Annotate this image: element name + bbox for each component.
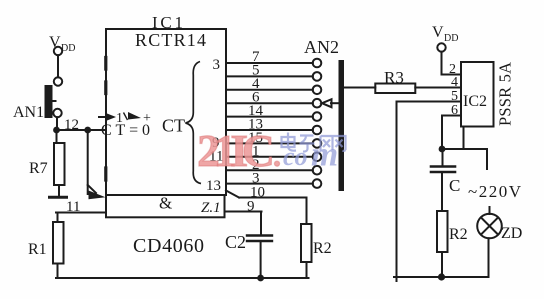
IC1 left edge overdraw marks bbox=[104, 58, 107, 181]
svg-text:21IC: 21IC bbox=[197, 125, 275, 176]
wire node A down to R7 bbox=[56, 130, 58, 143]
oscillator sub-box & bbox=[106, 195, 225, 217]
svg-text:DD: DD bbox=[444, 33, 458, 44]
clock input arrow into sub-box bbox=[88, 185, 96, 193]
svg-text:CD4060: CD4060 bbox=[133, 235, 204, 257]
wire Vdd to button AN1 bbox=[57, 55, 59, 77]
wire button to node 12 bbox=[56, 117, 58, 130]
AN2 contact circle 6 bbox=[313, 126, 322, 135]
wire pin9 horizontal bbox=[225, 211, 262, 213]
wire AC stub lower to lamp bbox=[489, 207, 491, 214]
svg-text:&: & bbox=[159, 194, 172, 213]
Vdd supply terminal left bbox=[54, 47, 62, 55]
output wire Q6 pin4 bbox=[226, 89, 313, 91]
wire Vdd to IC2 pin2 bbox=[442, 52, 462, 75]
AN2 contact circle 9 bbox=[313, 166, 322, 175]
svg-text:4: 4 bbox=[451, 75, 458, 90]
svg-text:11: 11 bbox=[66, 199, 80, 215]
svg-text:CT: CT bbox=[162, 116, 185, 136]
pushbutton AN1 top contact bbox=[54, 77, 62, 85]
output wire Q4 pin7 bbox=[226, 62, 313, 64]
AN2 contact circle 10 bbox=[313, 179, 322, 188]
wire R1 to bottom rail bbox=[57, 264, 59, 279]
wire node B down to clock arrow bbox=[87, 130, 89, 194]
output wire Q7 pin6 bbox=[226, 102, 313, 104]
svg-text:Z.1: Z.1 bbox=[201, 200, 221, 216]
AN2 contact circle 2 bbox=[313, 72, 322, 81]
svg-text:~220V: ~220V bbox=[468, 182, 522, 201]
svg-text:C2: C2 bbox=[225, 232, 246, 252]
wire pin10 horizontal bbox=[239, 197, 307, 199]
AN2 selector bar bbox=[339, 60, 345, 191]
svg-text:R2: R2 bbox=[313, 240, 332, 257]
wire AC stub upper bbox=[486, 149, 488, 169]
AN2 contact circle 5 bbox=[313, 112, 322, 121]
svg-text:CT=0: CT=0 bbox=[101, 122, 150, 139]
watermark dianziwang blue glyphs bbox=[282, 133, 346, 152]
wire pin10 diagonal from box corner bbox=[226, 191, 239, 198]
output wire Q12 pin1 bbox=[226, 156, 313, 158]
resistor R2 right bbox=[437, 211, 448, 252]
dynamic input arrowhead bbox=[107, 114, 116, 121]
resistor R1 bbox=[53, 222, 64, 264]
resistor R3 bbox=[375, 84, 415, 94]
wire right bottom rail bbox=[394, 276, 489, 278]
brace CT outputs bbox=[186, 62, 202, 184]
AN2 contact circle 1 bbox=[313, 59, 322, 68]
wire IC2 bottom pin down bbox=[463, 127, 465, 150]
dynamic input wedge pin stub bbox=[99, 116, 107, 118]
wire R2 to right rail bbox=[441, 252, 443, 277]
svg-text:V: V bbox=[49, 34, 61, 51]
svg-text:.: . bbox=[273, 137, 281, 173]
svg-text:13: 13 bbox=[206, 178, 221, 194]
wire C to R2 bbox=[441, 172, 443, 211]
AN2 contact circle 7 bbox=[313, 139, 322, 148]
wire pin10 down to R2 bbox=[306, 198, 308, 225]
svg-text:5: 5 bbox=[451, 89, 458, 104]
svg-text:AN2: AN2 bbox=[304, 37, 339, 57]
lamp ZD bbox=[477, 214, 502, 239]
wire selector bar to R3 bbox=[344, 87, 375, 89]
svg-text:co: co bbox=[283, 142, 308, 171]
wire IC2 pin6 down bbox=[442, 116, 461, 150]
node B junction dot bbox=[84, 127, 91, 134]
capacitor C2 bbox=[247, 234, 272, 236]
svg-text:6: 6 bbox=[451, 103, 458, 118]
svg-text:ZD: ZD bbox=[501, 225, 522, 242]
AN2 contact circle 8 bbox=[313, 153, 322, 162]
wire R2 to bottom rail bbox=[306, 262, 308, 278]
wire R3 to IC2 pin4 bbox=[415, 87, 461, 89]
svg-text:PSSR 5A: PSSR 5A bbox=[496, 62, 515, 126]
IC1 main box bbox=[106, 29, 226, 195]
wire pin11 down to R1 bbox=[57, 213, 59, 223]
output wire Q5 pin5 bbox=[226, 75, 313, 77]
resistor R7 bbox=[54, 143, 65, 185]
resistor R2 center bbox=[301, 224, 312, 262]
svg-text:9: 9 bbox=[247, 199, 255, 215]
svg-text:R1: R1 bbox=[28, 241, 47, 258]
AN2 contact circle 4 bbox=[313, 99, 322, 108]
svg-text:R7: R7 bbox=[29, 160, 48, 177]
junction dot right rail bbox=[438, 273, 445, 280]
node C junction dot bbox=[439, 146, 446, 153]
pushbutton AN1 actuator bar bbox=[45, 85, 53, 118]
wire pin 11 line bbox=[56, 212, 106, 214]
capacitor C bbox=[431, 165, 455, 168]
svg-text:12: 12 bbox=[64, 117, 79, 133]
output wire Q10 pin15 bbox=[226, 142, 313, 144]
junction dot C2 bottom bbox=[257, 275, 264, 282]
svg-text:IC2: IC2 bbox=[463, 93, 487, 110]
AN2 wiper arrow bbox=[331, 102, 339, 104]
wire node12 horizontal to IC1 pin12 bbox=[57, 129, 107, 131]
output wire Q9 pin13 bbox=[226, 129, 313, 131]
svg-text:m: m bbox=[311, 135, 338, 174]
pushbutton AN1 bottom contact bbox=[53, 109, 61, 117]
wire node C down to capacitor C bbox=[442, 149, 444, 166]
output wire Q14 pin3 bbox=[226, 183, 313, 185]
AN2 contact circle 3 bbox=[313, 86, 322, 95]
watermark 21IC bbox=[197, 125, 346, 176]
svg-text:3: 3 bbox=[213, 57, 221, 73]
wire lamp to right rail bbox=[488, 238, 490, 277]
svg-text:RCTR14: RCTR14 bbox=[135, 30, 206, 50]
wire pin9 down to C2 bbox=[260, 212, 262, 236]
ground bbox=[50, 196, 67, 199]
svg-text:DD: DD bbox=[61, 43, 75, 54]
svg-text:C: C bbox=[449, 176, 460, 195]
wire IC2 pin5 to left rail bbox=[397, 102, 462, 282]
node A junction dot bbox=[53, 127, 60, 134]
wire C2 to bottom rail bbox=[260, 241, 262, 278]
svg-text:AN1: AN1 bbox=[13, 104, 44, 121]
wire bottom rail left circuit bbox=[56, 277, 309, 279]
Vdd supply terminal right bbox=[437, 43, 445, 51]
svg-text:R2: R2 bbox=[449, 226, 468, 243]
output wire Q13 pin2 bbox=[226, 169, 313, 171]
svg-text:R3: R3 bbox=[384, 68, 404, 87]
output wire Q8 pin14 bbox=[226, 116, 313, 118]
svg-text:V: V bbox=[432, 24, 444, 41]
wire node C horizontal bbox=[442, 148, 487, 150]
IC2 box bbox=[461, 62, 494, 127]
wire R7 to ground bbox=[58, 185, 60, 197]
